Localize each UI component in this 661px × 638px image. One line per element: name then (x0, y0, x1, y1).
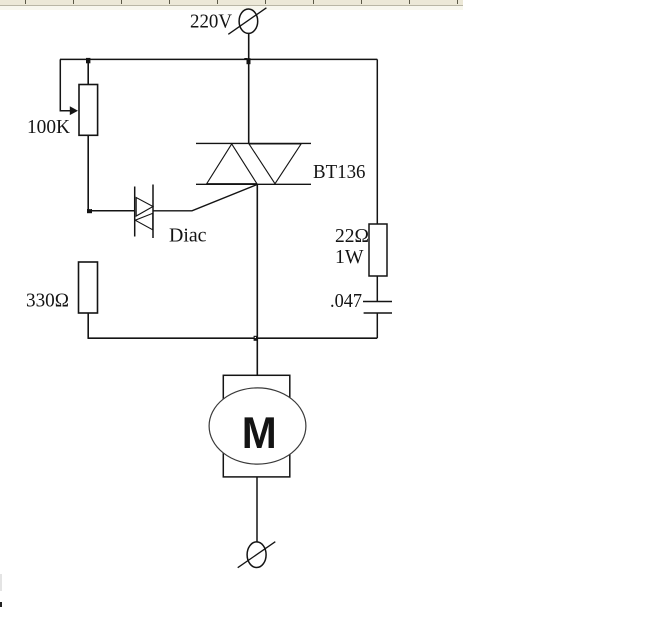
svg-text:1W: 1W (335, 246, 364, 268)
left edge screen artifact (0, 574, 2, 607)
svg-text:.047: .047 (330, 290, 362, 312)
wire: diac to triac gate (153, 184, 257, 210)
wire: wiper branch left vertical (60, 59, 70, 110)
triac BT136 (196, 143, 311, 184)
AC source terminal 220V (228, 8, 266, 35)
wire: top horizontal bus (60, 58, 377, 60)
bottom terminal (238, 542, 276, 568)
svg-text:BT136: BT136 (313, 161, 366, 183)
wire: motor to bottom terminal (256, 477, 258, 542)
wire: top bus to potentiometer (87, 59, 89, 84)
resistor 22R 1W body (369, 224, 387, 276)
junction at source and top bus (247, 58, 251, 64)
motor M (209, 375, 306, 477)
wire: resistor to capacitor (376, 276, 378, 302)
wire: right branch vertical from top bus (376, 59, 378, 224)
svg-text:Diac: Diac (169, 225, 207, 247)
wire: source down to top bus (248, 34, 250, 60)
diac (135, 185, 153, 239)
potentiometer 100K body (79, 85, 98, 136)
capacitor .047 (363, 302, 392, 314)
resistor 330R body (79, 262, 98, 313)
svg-text:330Ω: 330Ω (26, 290, 69, 312)
wire: triac MT2 down to motor node (256, 184, 258, 375)
svg-text:22Ω: 22Ω (335, 225, 369, 247)
junction at motor node (254, 336, 258, 341)
svg-text:100K: 100K (27, 116, 71, 138)
wire: potentiometer to diac node (87, 135, 89, 211)
junction at potentiometer top (86, 58, 90, 63)
toolbar ruler strip (0, 0, 463, 10)
svg-text:M: M (242, 409, 277, 458)
wire: 330R to bottom bus (87, 313, 89, 339)
wire: node to diac (88, 210, 135, 212)
wire: capacitor to bottom bus (376, 313, 378, 338)
svg-text:220V: 220V (190, 11, 233, 33)
wire: top bus to triac MT1 (248, 59, 250, 143)
node marker at diac branch (87, 209, 92, 213)
wire: bottom horizontal bus (88, 337, 377, 339)
wiper arrowhead (70, 106, 78, 115)
